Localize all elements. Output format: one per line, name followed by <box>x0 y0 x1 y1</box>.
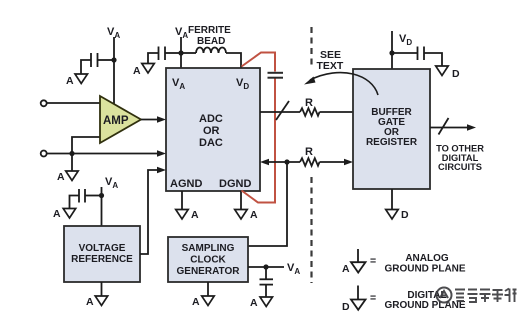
svg-text:DGND: DGND <box>219 178 251 190</box>
ground D (buffer) <box>386 209 409 221</box>
red decoupling current loop <box>242 53 276 203</box>
wire bead to VD pin <box>226 53 241 68</box>
ground A (C6) <box>250 297 273 309</box>
input terminal J2 <box>41 151 47 157</box>
svg-text:DAC: DAC <box>199 137 223 149</box>
op-amp AMP <box>100 96 141 143</box>
wire buffer output <box>430 124 476 131</box>
input terminal J1 <box>41 100 47 106</box>
block BUFFER GATE OR REGISTER <box>353 69 430 189</box>
svg-text:A: A <box>57 171 65 183</box>
svg-text:=: = <box>370 292 376 304</box>
ferrite bead L1 <box>181 52 196 54</box>
svg-text:REFERENCE: REFERENCE <box>71 254 133 265</box>
svg-text:BEAD: BEAD <box>197 36 225 47</box>
svg-text:FERRITE: FERRITE <box>188 25 231 36</box>
dashed partition line (upper) <box>310 27 312 69</box>
ground A (input2) <box>57 171 78 183</box>
wire SCG to ground <box>207 282 209 296</box>
ground A (voltage reference) <box>86 296 108 308</box>
svg-text:GROUND PLANE: GROUND PLANE <box>384 300 465 311</box>
svg-text:A: A <box>133 65 141 77</box>
ground A (C1) <box>66 74 88 87</box>
capacitor C3 (in red loop) <box>268 73 284 78</box>
svg-text:A: A <box>250 209 258 221</box>
svg-text:GROUND PLANE: GROUND PLANE <box>384 264 465 275</box>
wire DGND to ground <box>240 191 242 210</box>
label TO OTHER DIGITAL CIRCUITS <box>436 144 484 173</box>
capacitor C6 <box>260 267 274 297</box>
junction dot (clock line) <box>284 159 289 164</box>
svg-text:TEXT: TEXT <box>317 60 344 72</box>
svg-text:CLOCK: CLOCK <box>190 255 226 266</box>
watermark <box>437 288 517 303</box>
wire junction to sampling clock generator <box>248 162 287 246</box>
ground A (AGND) <box>176 209 199 221</box>
ground A (C2) <box>133 64 154 78</box>
svg-text:A: A <box>192 296 200 308</box>
junction dot (VA amp) <box>111 57 116 62</box>
svg-text:CIRCUITS: CIRCUITS <box>438 162 482 172</box>
wire VD down to buffer <box>391 31 393 69</box>
svg-text:R: R <box>305 146 313 158</box>
junction dot (VR VA) <box>99 193 104 198</box>
wire voltage reference to ground <box>101 282 103 296</box>
capacitor C5 <box>70 189 102 209</box>
capacitor C4 <box>392 47 442 67</box>
svg-text:VOLTAGE: VOLTAGE <box>79 243 126 254</box>
ground A (C5) <box>53 208 76 220</box>
junction dot (input2) <box>69 151 74 156</box>
svg-text:AMP: AMP <box>103 115 129 127</box>
svg-text:REGISTER: REGISTER <box>366 137 418 148</box>
svg-text:A: A <box>342 263 350 275</box>
wire VA down to voltage reference <box>101 187 103 226</box>
svg-text:AGND: AGND <box>170 178 202 190</box>
wire SCG VA <box>248 266 284 268</box>
svg-text:D: D <box>401 209 409 221</box>
svg-text:A: A <box>86 296 94 308</box>
block ADC OR DAC <box>166 68 260 191</box>
ground D (C4) <box>436 66 460 80</box>
bus slash (top line) <box>276 101 289 120</box>
svg-text:A: A <box>66 75 74 87</box>
block VOLTAGE REFERENCE <box>64 226 140 282</box>
wire input2 to ADC <box>47 150 167 157</box>
svg-text:OR: OR <box>203 125 220 137</box>
capacitor C1 <box>81 53 114 74</box>
legend analog ground plane <box>342 249 466 275</box>
wire VA stub down to VA pin <box>180 37 182 68</box>
svg-text:A: A <box>53 208 61 220</box>
legend digital ground plane <box>342 286 466 314</box>
wire buffer to ground <box>391 189 393 210</box>
ground A (SCG) <box>192 296 214 308</box>
bus slash (buffer output) <box>439 118 449 135</box>
wire AGND to ground <box>181 191 183 210</box>
wire input1 to op-amp <box>47 102 101 104</box>
wire input2 to ground <box>71 154 73 172</box>
curved arrow <box>304 73 378 95</box>
svg-text:ADC: ADC <box>199 113 223 125</box>
block SAMPLING CLOCK GENERATOR <box>168 237 248 282</box>
svg-text:D: D <box>452 68 460 80</box>
svg-text:=: = <box>370 255 376 267</box>
svg-text:A: A <box>191 209 199 221</box>
svg-text:A: A <box>250 297 258 309</box>
wire feedback step to op-amp <box>72 137 100 154</box>
resistor R2 (bottom clock line) <box>260 146 353 166</box>
svg-text:ANALOG: ANALOG <box>405 253 449 264</box>
wire voltage reference to ADC <box>140 167 166 254</box>
ground A (DGND) <box>235 209 258 221</box>
capacitor C2 <box>148 47 181 64</box>
wire op-amp output to ADC <box>141 116 166 123</box>
junction dot (SCG VA) <box>263 264 268 269</box>
dashed partition line (lower) <box>310 177 312 283</box>
svg-text:SAMPLING: SAMPLING <box>182 243 235 254</box>
wire VA down to op-amp <box>113 37 115 104</box>
svg-text:D: D <box>342 301 350 313</box>
junction dot (VA ferrite) <box>178 50 183 55</box>
junction dot (VD) <box>389 50 394 55</box>
svg-text:R: R <box>305 97 313 109</box>
svg-text:GENERATOR: GENERATOR <box>177 266 241 277</box>
resistor R1 (top data line) <box>260 97 353 116</box>
